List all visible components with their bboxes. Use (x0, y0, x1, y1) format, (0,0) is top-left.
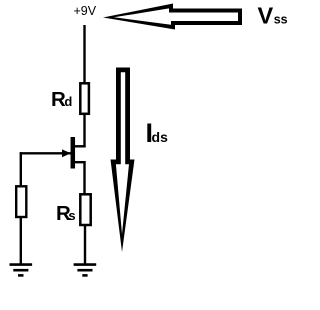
wire: Rs bottom to right ground (84, 225, 86, 265)
transistor Q1 drain lead (73, 145, 86, 147)
block arrow Vss (points left) (103, 4, 242, 30)
wire: +9V to Rd top (83, 25, 85, 84)
svg-text:+9V: +9V (74, 4, 97, 18)
transistor Q1 gate wire (20, 152, 71, 154)
wire: Rd bottom to drain (83, 114, 85, 148)
transistor Q1 gate arrowhead (62, 149, 71, 157)
block arrow Ids (points down) (111, 68, 135, 253)
resistor R1 (gate bias) (16, 186, 26, 217)
transistor Q1 source lead (73, 161, 86, 163)
ground (right) (74, 265, 97, 276)
wire: source to Rs top (83, 161, 85, 195)
wire: gate node down to R1 (20, 152, 22, 186)
wire: R1 to left ground (20, 217, 22, 264)
ground (left) (10, 265, 33, 276)
resistor Rd (80, 83, 89, 114)
resistor Rs (80, 194, 90, 225)
transistor Q1 channel bar (71, 137, 76, 169)
